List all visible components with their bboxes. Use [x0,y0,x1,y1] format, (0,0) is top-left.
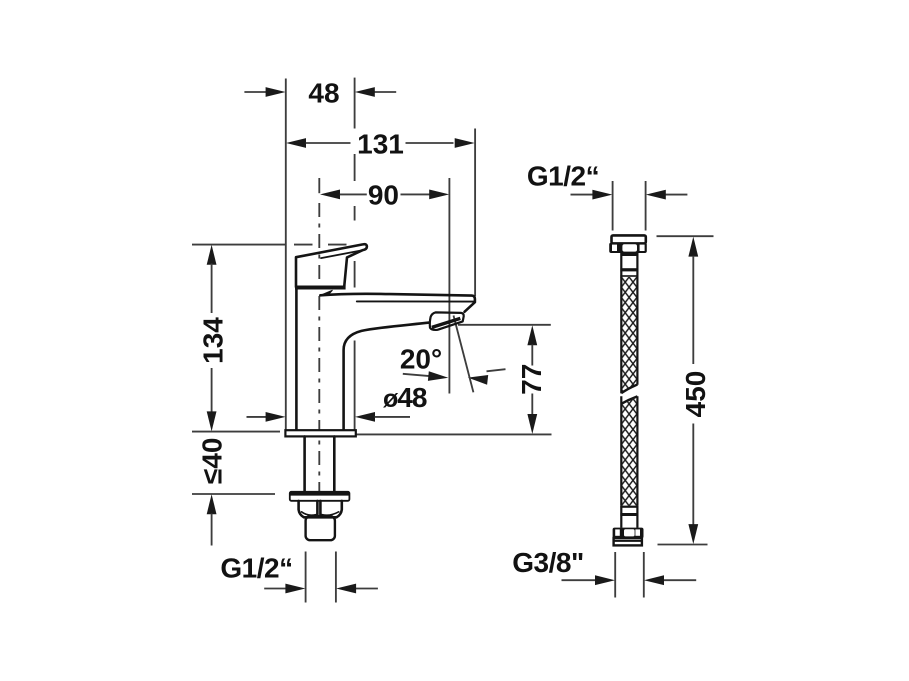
centerline: faucet vertical axis (dash-dot) [318,178,320,193]
svg-text:131: 131 [357,128,404,159]
svg-text:48: 48 [308,77,339,108]
hose bottom nut [613,528,644,539]
extension line: faucet base right edge (x=354.6, broken segments) [354,78,356,129]
svg-text:134: 134 [197,317,228,364]
faucet neck wedge [320,290,332,295]
svg-text:G1/2“: G1/2“ [220,553,292,584]
dimension <=40: arrow and label (rotated) [207,494,217,514]
water stream line at 20 deg [454,316,474,393]
svg-text:77: 77 [516,364,547,395]
faucet spout: inner top line [357,300,474,302]
svg-text:20°: 20° [400,343,442,374]
faucet spout: underside and body right wall [344,323,430,430]
hose braid lower section [621,396,637,505]
reference line: outlet level (y=324.8) [458,324,551,326]
dimension 77: dimension line and arrows [527,325,537,345]
reference line: mounting surface left (y=431.6) [192,431,280,433]
locknut washer plate [290,492,350,501]
dimension 90: dimension line and arrows [320,190,340,200]
hose braid upper section [621,277,637,393]
handle-body seam (thick) [295,286,346,290]
svg-text:90: 90 [368,180,399,211]
svg-text:ø48: ø48 [383,382,427,413]
bottom dimension G1/2: extension lines [305,552,307,603]
extension line: spout outlet axis (x=449.4) [448,178,450,394]
threaded shank walls [303,437,306,492]
dimension G3/8: extension lines [614,552,616,598]
svg-text:≤40: ≤40 [197,438,228,485]
reference line: spout top level (y=244.6), solid then dashed [192,244,286,246]
hose collar walls [620,253,622,278]
aerator lower edge line [439,321,463,329]
reference line: locknut top left (y=494) [192,493,275,495]
svg-text:G3/8": G3/8" [512,547,583,578]
handle lever top-face inner edge [321,250,362,258]
base flange (o48) [285,430,355,436]
bottom dimension G1/2: arrows [264,588,286,590]
G1/2 tailpiece [306,516,335,540]
dimension 20 deg: arrows and label [403,374,430,376]
svg-text:G1/2“: G1/2“ [527,161,599,192]
hose top nut [609,243,647,253]
extension line: spout tip right (x=475.1) [474,129,476,297]
dimension 450: dimension line and arrows [688,237,698,257]
handle lever outline [296,244,367,287]
hose top dimension G1/2: extension lines [612,181,614,231]
hose break cut (lower) [621,396,637,403]
hose top cap [612,235,646,243]
hose top dimension G1/2: arrows [571,194,593,196]
aerator outlet piece [430,312,464,330]
extension line: faucet base left edge (x=285.8) [285,79,287,431]
hose lower collar [620,506,638,508]
hose break cut (upper) [621,385,637,394]
hose collar band [620,268,638,271]
faucet body left wall [295,289,298,430]
dimension 131: dimension line and arrows [286,138,306,148]
hose bottom cap [614,538,642,545]
hose neck below nut [621,253,639,256]
faucet spout: top edge, right edge and chamfer [320,294,475,312]
reference line: hose bottom (y=544.5) [658,544,708,546]
dimension G3/8: arrows [562,579,596,581]
svg-text:450: 450 [680,371,711,418]
reference line: mounting surface right (y=434.4) [356,433,551,435]
reference line: hose top (y=236.2) [657,235,714,237]
dimension 134: dimension line and arrows [207,245,217,265]
dimension o48: dimension line and arrows [247,416,267,418]
locknut (hex) [299,501,342,517]
dimension 48: dimension line and arrows [244,91,266,93]
aerator slot stripe (thick) [432,318,461,327]
